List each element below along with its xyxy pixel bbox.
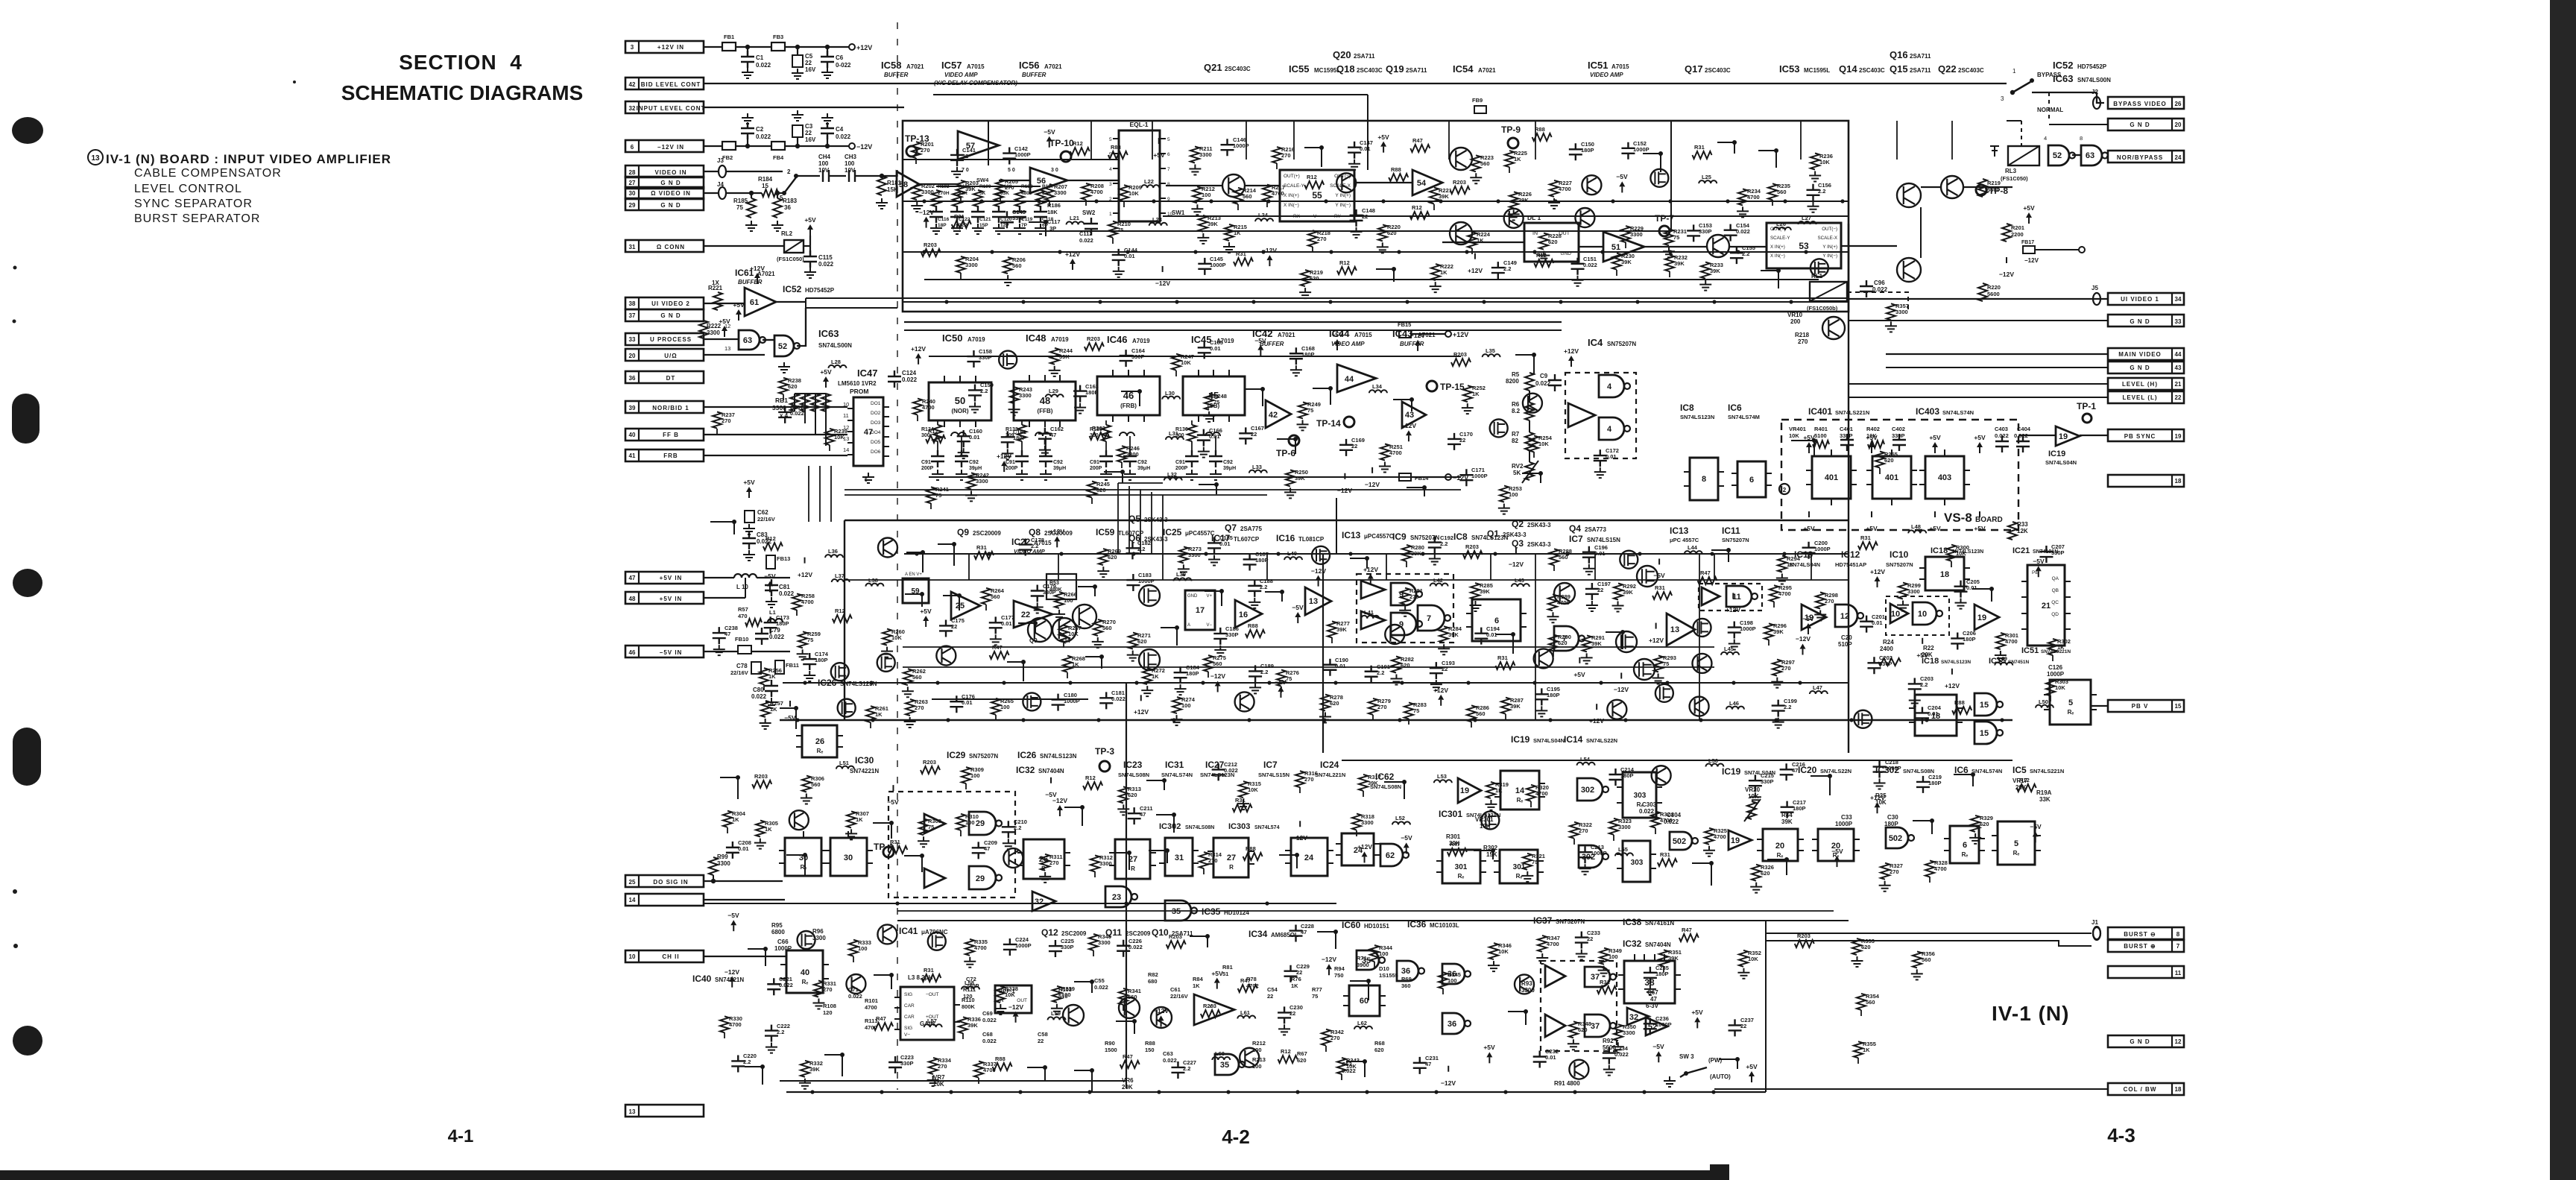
wire [776, 301, 806, 303]
op-amp IC4a [1568, 403, 1595, 427]
svg-text:1K: 1K [1152, 673, 1159, 680]
ground [881, 647, 893, 657]
wire [1160, 153, 1166, 154]
power +5V [1922, 638, 1923, 644]
gate IC9c [1391, 583, 1416, 605]
svg-text:R19A: R19A [2036, 789, 2052, 796]
junction [1333, 681, 1337, 684]
svg-text:SN74LS04N: SN74LS04N [2045, 459, 2077, 466]
power +5V [1383, 147, 1384, 153]
resistor R261 [866, 706, 875, 722]
svg-text:620: 620 [1861, 944, 1871, 950]
svg-text:+12V: +12V [1049, 528, 1064, 535]
svg-text:39K: 39K [1510, 703, 1521, 710]
connector pin 11 [2108, 966, 2184, 978]
svg-text:R401: R401 [1814, 426, 1828, 432]
svg-text:10: 10 [1891, 610, 1900, 619]
transistor Q58 [1003, 848, 1023, 868]
relay RL1 [1810, 282, 1847, 301]
svg-text:C4: C4 [836, 126, 844, 133]
wire MAIN VIDEO [1886, 353, 2108, 355]
svg-text:303: 303 [1631, 859, 1644, 867]
wire [1175, 370, 1177, 376]
resistor [1070, 148, 1090, 155]
junction [1784, 857, 1789, 862]
resistor R341 [1119, 988, 1128, 1005]
svg-text:IC60: IC60 [1342, 920, 1361, 930]
junction [1774, 718, 1778, 722]
scan speck [13, 320, 16, 324]
capacitor filter b [955, 450, 968, 467]
svg-text:SN74LS221N: SN74LS221N [2030, 768, 2064, 774]
junction [1193, 250, 1197, 253]
svg-text:R201: R201 [2011, 224, 2024, 231]
svg-text:R47: R47 [992, 644, 1003, 651]
scan speck [13, 889, 17, 894]
svg-text:−12V: −12V [1614, 686, 1629, 693]
junction [1157, 1090, 1161, 1094]
power +12V [918, 359, 919, 365]
svg-text:R12: R12 [1307, 174, 1317, 180]
capacitor C402 [1892, 434, 1906, 451]
wire [906, 552, 923, 572]
svg-text:2.2: 2.2 [1031, 543, 1038, 549]
bus y1222 [897, 910, 1834, 912]
svg-text:0.022: 0.022 [818, 261, 834, 268]
svg-text:100: 100 [1000, 704, 1010, 710]
capacitor filter b [1209, 450, 1222, 467]
junction [1134, 681, 1138, 684]
ground [1538, 251, 1550, 262]
junction [921, 550, 925, 555]
svg-text:4700: 4700 [1714, 833, 1726, 840]
svg-text:R81: R81 [1222, 964, 1233, 971]
svg-text:R203: R203 [1169, 933, 1182, 940]
svg-text:470: 470 [738, 613, 748, 619]
svg-text:3300: 3300 [976, 478, 988, 485]
junction [1044, 220, 1048, 224]
svg-text:22: 22 [1021, 610, 1030, 619]
svg-text:0.022: 0.022 [1614, 1051, 1629, 1058]
svg-text:1K: 1K [770, 706, 777, 713]
wire amp57 out [999, 180, 1030, 181]
svg-text:10K: 10K [1748, 956, 1758, 962]
power +12V [1732, 593, 1734, 599]
wire [2035, 249, 2080, 250]
resistor R253 [1500, 486, 1509, 502]
svg-text:21: 21 [2175, 381, 2182, 388]
junction [922, 250, 926, 253]
junction [794, 174, 798, 178]
junction [1573, 1090, 1576, 1094]
FET Q43 [877, 654, 895, 672]
svg-text:C91: C91 [921, 460, 931, 465]
svg-text:35: 35 [1172, 907, 1181, 916]
junction [1209, 199, 1213, 203]
svg-text:X IN(+): X IN(+) [1770, 244, 1785, 250]
svg-text:19: 19 [2059, 432, 2068, 441]
wire BURST [1766, 933, 2092, 934]
wire [747, 47, 748, 57]
power +12V [1570, 361, 1572, 367]
svg-text:10K: 10K [1005, 991, 1015, 998]
junction [1120, 470, 1125, 474]
transistor Q33 [1582, 175, 1601, 195]
resistor R303 [2046, 679, 2055, 695]
svg-text:22: 22 [805, 130, 812, 136]
op-amp IC51 [1603, 232, 1644, 262]
connector pin 31 &#937; CONN [625, 240, 704, 252]
junction [1090, 1068, 1094, 1073]
svg-text:SN74LS123N: SN74LS123N [840, 681, 877, 687]
svg-text:SN74LS123N: SN74LS123N [1680, 414, 1714, 420]
junction [2030, 78, 2034, 83]
svg-text:270: 270 [1825, 598, 1834, 605]
ground [797, 649, 809, 660]
svg-text:22: 22 [1362, 213, 1368, 220]
svg-text:11: 11 [843, 412, 849, 419]
junction [1798, 681, 1802, 684]
svg-text:270H: 270H [938, 191, 950, 196]
gate IC35b [1215, 1054, 1239, 1075]
svg-text:30: 30 [629, 190, 636, 197]
ground [1485, 800, 1497, 810]
rail y778 [845, 579, 1849, 581]
resistor R7 [1525, 432, 1534, 450]
transistor Q16 [1897, 183, 1921, 207]
svg-text:IV-1 (N) BOARD : INPUT VIDEO A: IV-1 (N) BOARD : INPUT VIDEO AMPLIFIER [106, 152, 391, 166]
wire IC55 out [1354, 182, 1412, 183]
capacitor C237 [1729, 1019, 1742, 1036]
IC301a [1442, 850, 1480, 883]
svg-text:R22: R22 [1923, 645, 1934, 651]
ground [1299, 288, 1311, 298]
ground [1189, 164, 1201, 174]
svg-text:3300: 3300 [1618, 824, 1631, 830]
svg-text:Rₑ: Rₑ [801, 864, 807, 871]
gate IC502a [1670, 832, 1692, 850]
stub [1800, 121, 1802, 160]
wire [1160, 198, 1166, 199]
svg-text:270: 270 [1317, 236, 1327, 242]
svg-text:+5V: +5V [1974, 525, 1986, 532]
resistor R343 [1337, 1058, 1346, 1074]
svg-text:DO2: DO2 [871, 411, 881, 416]
svg-text:0.022: 0.022 [779, 590, 795, 597]
capacitor C154 [1724, 224, 1737, 242]
svg-text:180P: 180P [1547, 692, 1560, 698]
svg-text:47: 47 [724, 631, 730, 637]
IC34 comparator [1194, 994, 1234, 1025]
svg-text:VR401: VR401 [1789, 426, 1806, 432]
svg-text:IC19: IC19 [1511, 734, 1530, 745]
wire [1160, 212, 1166, 214]
transistor Q31 [1336, 173, 1356, 192]
resistor [1246, 630, 1265, 637]
svg-text:75: 75 [1117, 227, 1123, 233]
svg-text:19: 19 [2175, 433, 2182, 440]
op-amp IC37c [1545, 1015, 1565, 1037]
capacitor C158 [967, 350, 980, 367]
wire [726, 171, 783, 172]
resistor R281 [1401, 588, 1409, 605]
capacitor C9 [1548, 374, 1562, 391]
resistor R314 [1199, 852, 1208, 868]
connector pin 37 G N D [625, 309, 704, 321]
svg-text:Y IN(+): Y IN(+) [1822, 244, 1837, 250]
transistor Q15 [1897, 258, 1921, 282]
capacitor C196 [1582, 546, 1596, 564]
wire to IC53 [1729, 246, 1767, 247]
svg-text:4700: 4700 [1535, 790, 1548, 797]
svg-text:COL / BW: COL / BW [2124, 1086, 2157, 1093]
svg-text:1000P: 1000P [774, 945, 792, 952]
junction [1434, 1090, 1438, 1094]
svg-text:200: 200 [1790, 318, 1801, 325]
wire GND 43 [1886, 367, 2108, 368]
ground [956, 470, 967, 480]
junction [1132, 1019, 1137, 1023]
svg-text:C33: C33 [1841, 814, 1852, 821]
capacitor C151 [1571, 258, 1585, 275]
svg-text:1000P: 1000P [1014, 151, 1031, 158]
resistor R229 [1621, 226, 1630, 242]
junction [1840, 199, 1844, 203]
resistor R311 [1041, 854, 1049, 871]
junction [736, 775, 740, 780]
wire [1791, 441, 1814, 457]
svg-text:IC401: IC401 [1808, 406, 1832, 417]
ground [1663, 247, 1675, 257]
gate IC15b [1974, 722, 1997, 744]
ground [1214, 646, 1226, 656]
resistor R327 [1881, 863, 1890, 880]
svg-text:SN74LS00N: SN74LS00N [2077, 77, 2111, 83]
resistor R340 [1089, 934, 1098, 950]
svg-text:4-2: 4-2 [1222, 1126, 1250, 1148]
svg-text:37: 37 [1591, 1022, 1600, 1031]
wire [960, 197, 962, 203]
svg-text:L51: L51 [839, 760, 849, 766]
svg-text:330P: 330P [1061, 944, 1074, 950]
resistor R211 [1190, 147, 1199, 163]
junction [1295, 1090, 1299, 1094]
FET Q41 [838, 699, 856, 717]
svg-text:2.2: 2.2 [1920, 681, 1928, 688]
svg-text:0.01: 0.01 [1594, 550, 1606, 557]
svg-text:620: 620 [1761, 870, 1770, 877]
connector pin 48 +5V IN [625, 592, 704, 604]
svg-text:270: 270 [1579, 827, 1588, 834]
ground [1612, 602, 1624, 612]
svg-text:L43: L43 [1515, 577, 1524, 584]
svg-text:A7021: A7021 [1044, 63, 1062, 70]
svg-text:R12: R12 [1281, 1048, 1291, 1055]
junction [1405, 300, 1409, 303]
svg-text:SN74LS22N: SN74LS22N [1586, 737, 1617, 744]
junction [1712, 300, 1716, 303]
svg-text:IC16: IC16 [1276, 533, 1295, 543]
junction [1366, 979, 1371, 983]
svg-text:10K: 10K [891, 634, 902, 641]
IC301b [1500, 850, 1538, 883]
svg-text:180P: 180P [1013, 435, 1026, 441]
capacitor C193 [1430, 662, 1443, 679]
resistor R353 [1852, 938, 1861, 955]
resistor R317 [1359, 774, 1368, 791]
svg-text:R71: R71 [1357, 955, 1367, 962]
wire [2007, 120, 2021, 122]
wire DO SIG IN [704, 880, 783, 882]
svg-text:+5V: +5V [1211, 970, 1223, 977]
svg-text:1K: 1K [1514, 156, 1521, 163]
wire [1374, 962, 1375, 968]
svg-text:UI VIDEO 1: UI VIDEO 1 [2121, 296, 2159, 303]
svg-text:(FRB): (FRB) [1120, 403, 1137, 409]
power +12V [1474, 253, 1476, 259]
svg-text:4: 4 [2044, 135, 2047, 142]
power +5V [1751, 1076, 1752, 1082]
connector J1 [2093, 927, 2100, 940]
svg-text:FB2: FB2 [722, 154, 733, 161]
ground [1874, 779, 1886, 789]
capacitor C145 [1198, 258, 1211, 275]
svg-text:0.022: 0.022 [1111, 695, 1126, 702]
svg-text:+5V: +5V [733, 301, 745, 309]
wire [1625, 242, 1626, 248]
op-amp IC9b [1361, 611, 1385, 629]
svg-text:+12V: +12V [911, 345, 926, 353]
resistor R243 [1010, 387, 1019, 403]
wire [1573, 839, 1575, 845]
transistor Q46 [1235, 692, 1254, 711]
junction [1226, 1090, 1230, 1094]
svg-text:IC45: IC45 [1191, 334, 1211, 345]
ground [1141, 686, 1153, 696]
ground [812, 999, 824, 1009]
svg-text:1K: 1K [765, 826, 772, 833]
inductor L1 [768, 619, 783, 622]
ground [1039, 446, 1051, 456]
svg-text:R47: R47 [1240, 977, 1251, 984]
junction [1152, 199, 1155, 203]
junction [1322, 718, 1326, 722]
svg-text:4700: 4700 [1547, 941, 1559, 947]
svg-text:25: 25 [629, 879, 636, 886]
wire [745, 1067, 763, 1085]
svg-text:39μH: 39μH [969, 466, 982, 471]
capacitor C160 [957, 430, 970, 447]
svg-text:2: 2 [787, 168, 791, 175]
svg-text:C403: C403 [1995, 426, 2008, 432]
svg-text:33K: 33K [2039, 796, 2051, 803]
svg-text:4700: 4700 [922, 404, 935, 411]
svg-text:16: 16 [1239, 610, 1248, 619]
ground [792, 110, 804, 121]
resistor R315 [1239, 781, 1248, 798]
svg-text:14: 14 [843, 447, 849, 453]
junction [1087, 1090, 1091, 1094]
IC21 counter [2027, 565, 2065, 646]
junction [1524, 1009, 1528, 1014]
resistor R135 [1102, 425, 1111, 441]
capacitor C404 [2016, 435, 2030, 452]
svg-text:+5V IN: +5V IN [660, 575, 683, 581]
power +5V [1871, 447, 1872, 453]
wire [1116, 1021, 1134, 1034]
junction [1400, 681, 1404, 684]
ground [765, 698, 777, 708]
svg-text:L42: L42 [1433, 577, 1443, 584]
svg-text:BURST SEPARATOR: BURST SEPARATOR [134, 212, 260, 225]
resistor R357 [1887, 303, 1895, 320]
ground [1003, 839, 1014, 849]
wire [763, 339, 774, 341]
capacitor C3 [792, 125, 803, 137]
ground [742, 68, 754, 78]
IC6 flip-flop [1737, 461, 1766, 497]
svg-text:R31: R31 [1236, 250, 1246, 257]
resistor R306 [802, 776, 811, 792]
svg-text:63: 63 [2086, 151, 2094, 160]
connector pin 8 BURST &#8854; [2108, 927, 2184, 939]
svg-text:0.022: 0.022 [1094, 984, 1108, 991]
resistor [1652, 592, 1672, 599]
svg-text:0.022: 0.022 [751, 693, 767, 700]
page fold line [897, 22, 898, 1090]
svg-text:QC: QC [2051, 600, 2059, 605]
ground [993, 224, 1005, 234]
svg-text:FB1: FB1 [724, 34, 734, 40]
wire [1758, 151, 1776, 168]
svg-text:1000P: 1000P [1210, 262, 1226, 268]
wire [786, 855, 805, 877]
svg-text:R31: R31 [1655, 584, 1665, 591]
capacitor C163 [1073, 385, 1087, 403]
svg-text:2SA711: 2SA711 [1910, 67, 1931, 74]
capacitor C157 [778, 406, 792, 423]
wire from pin 14 [704, 899, 785, 900]
ground [742, 113, 754, 124]
svg-text:SCHEMATIC DIAGRAMS: SCHEMATIC DIAGRAMS [341, 81, 584, 104]
resistor [952, 221, 971, 228]
capacitor CH3 [849, 170, 855, 182]
svg-text:IC403: IC403 [1916, 406, 1939, 417]
junction [880, 174, 884, 178]
resistor [1534, 259, 1553, 267]
resistor [2017, 784, 2036, 792]
svg-text:75: 75 [1673, 234, 1679, 241]
resistor R251 [1380, 444, 1389, 461]
svg-text:LEVEL (H): LEVEL (H) [2122, 381, 2158, 388]
svg-text:Rₑ: Rₑ [2068, 709, 2074, 716]
resistor [1167, 941, 1186, 948]
wire [783, 394, 784, 400]
junction [1219, 589, 1224, 593]
svg-text:+12V: +12V [1134, 708, 1149, 716]
capacitor C228 [1289, 925, 1302, 942]
transistor Q18b [1822, 317, 1845, 339]
svg-text:330P: 330P [2051, 549, 2065, 556]
transistor Q34 [1575, 208, 1594, 227]
svg-text:Q22: Q22 [1938, 63, 1957, 75]
wire [1663, 966, 1664, 972]
svg-text:39K: 39K [809, 1066, 820, 1073]
board index circle 13 [88, 150, 103, 165]
+12V node 2 [1445, 331, 1451, 337]
capacitor C96 [1860, 280, 1873, 297]
resistor [993, 1063, 1012, 1070]
